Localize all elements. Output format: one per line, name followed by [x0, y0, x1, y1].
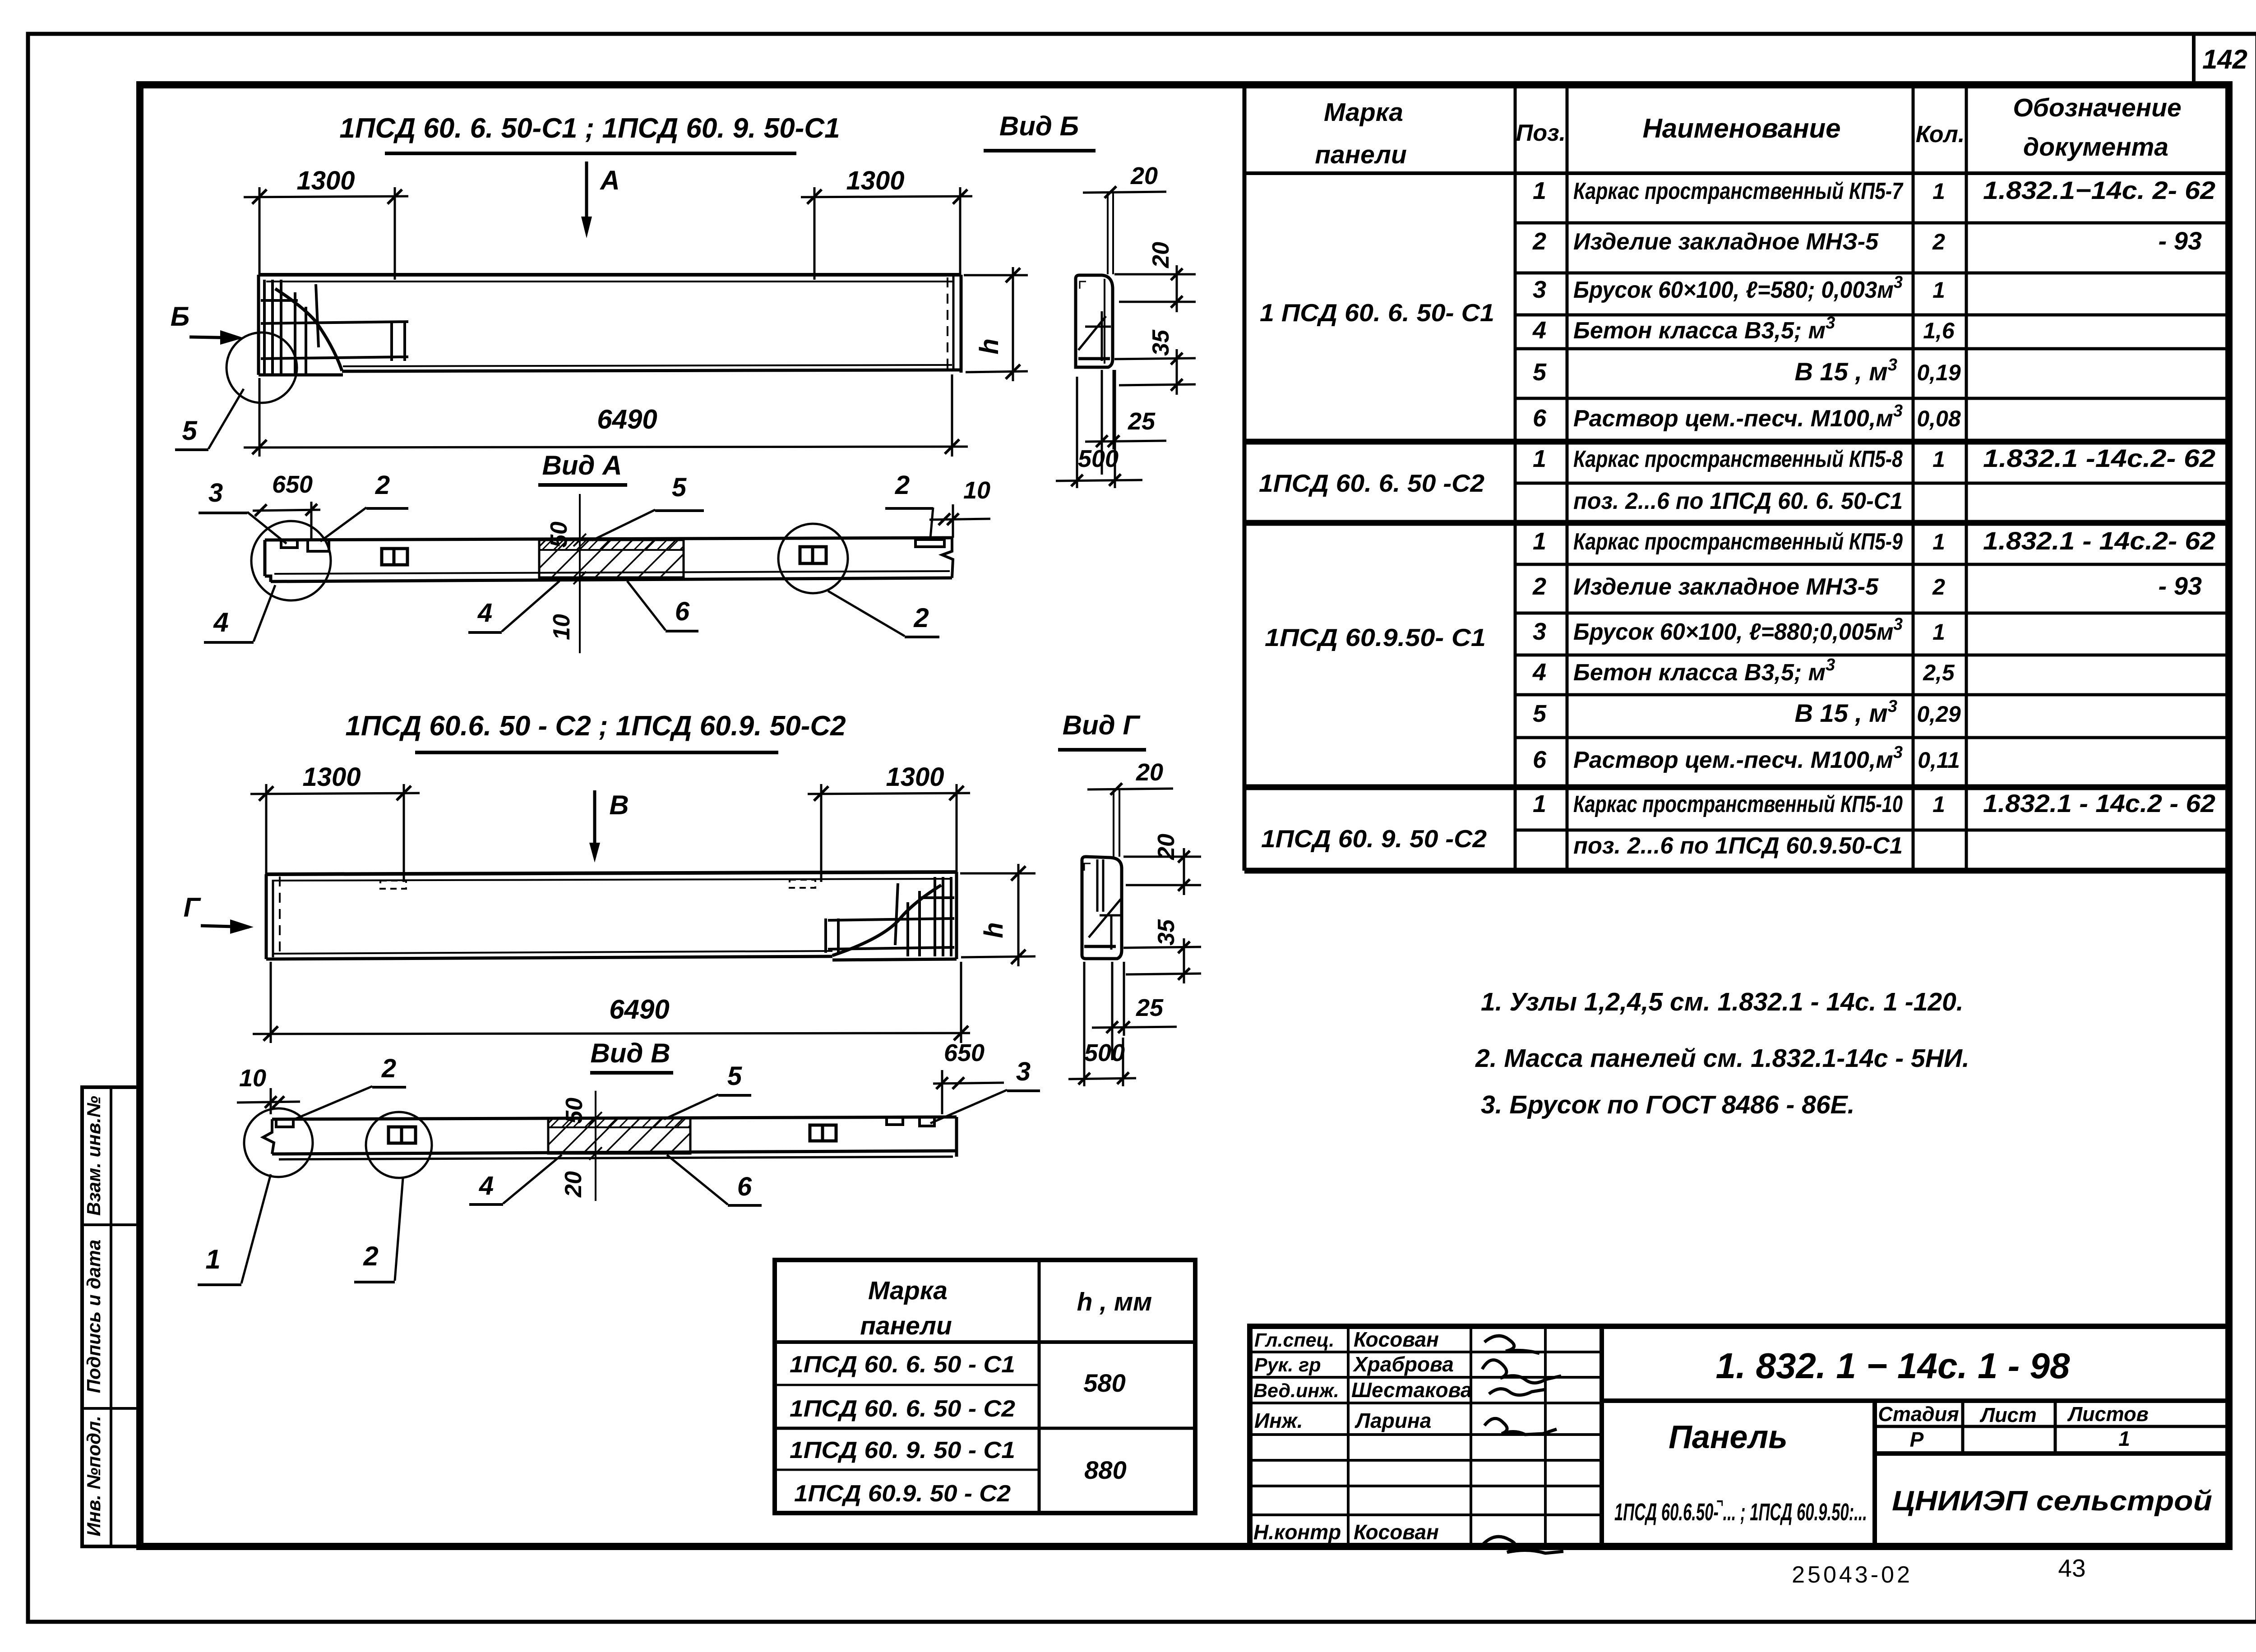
svg-text:0,11: 0,11 [1918, 748, 1960, 773]
svg-text:1300: 1300 [846, 166, 904, 195]
svg-text:поз. 2...6 по 1ПСД 60. 6. 50-С: поз. 2...6 по 1ПСД 60. 6. 50-С1 [1573, 488, 1903, 514]
svg-text:6: 6 [1533, 746, 1547, 773]
svg-text:1,6: 1,6 [1923, 318, 1955, 343]
svg-text:4: 4 [479, 1171, 494, 1200]
svg-text:1: 1 [1932, 619, 1945, 645]
svg-text:1. Узлы 1,2,4,5 см. 1.832.1: 1. Узлы 1,2,4,5 см. 1.832.1 - 14с. 1 -12… [1481, 988, 1964, 1016]
svg-text:Рук. гр: Рук. гр [1254, 1354, 1321, 1376]
svg-text:4: 4 [213, 607, 228, 637]
svg-text:1: 1 [2118, 1427, 2130, 1450]
Vid B section shape [1076, 275, 1113, 367]
svg-text:1. 832. 1 − 14с. 1 - 98: 1. 832. 1 − 14с. 1 - 98 [1715, 1346, 2070, 1386]
svg-text:поз. 2...6 по 1ПСД 60.9.50-С1: поз. 2...6 по 1ПСД 60.9.50-С1 [1573, 833, 1903, 859]
svg-text:3: 3 [1016, 1057, 1031, 1086]
svg-text:4: 4 [477, 598, 492, 628]
svg-text:Обозначение: Обозначение [2013, 93, 2181, 122]
specification table grid [1244, 85, 2229, 871]
svg-text:1: 1 [1533, 528, 1546, 555]
svg-text:документа: документа [2023, 133, 2168, 162]
svg-text:Брусок 60×100, ℓ=880;0,005м3: Брусок 60×100, ℓ=880;0,005м3 [1573, 615, 1903, 645]
svg-text:1ПСД 60. 9. 50 -С2: 1ПСД 60. 9. 50 -С2 [1261, 825, 1487, 853]
svg-text:500: 500 [1078, 445, 1119, 472]
Vid V strip outline [263, 1117, 957, 1159]
svg-text:Шестакова: Шестакова [1351, 1378, 1472, 1402]
panel C1 outline [259, 275, 961, 375]
svg-text:Листов: Листов [2067, 1403, 2149, 1426]
svg-text:650: 650 [272, 471, 313, 498]
svg-text:3: 3 [1533, 276, 1546, 303]
svg-text:2: 2 [363, 1241, 378, 1271]
svg-text:Косован: Косован [1354, 1520, 1439, 1544]
svg-text:2,5: 2,5 [1923, 660, 1955, 685]
svg-text:10: 10 [239, 1065, 266, 1092]
svg-text:5: 5 [1533, 700, 1547, 727]
svg-text:1ПСД 60. 9. 50 - С1: 1ПСД 60. 9. 50 - С1 [790, 1437, 1015, 1463]
svg-text:панели: панели [1315, 140, 1407, 169]
svg-text:Лист: Лист [1979, 1403, 2036, 1426]
panel C1 end reinforcement mesh [261, 280, 408, 374]
svg-text:Инж.: Инж. [1254, 1409, 1303, 1432]
svg-text:43: 43 [2058, 1554, 2085, 1582]
svg-text:1 ПСД 60. 6. 50- С1: 1 ПСД 60. 6. 50- С1 [1260, 299, 1494, 327]
Vid A detail circles [251, 521, 331, 600]
svg-text:3: 3 [1533, 618, 1546, 645]
svg-text:Бетон класса В3,5; м3: Бетон класса В3,5; м3 [1573, 314, 1835, 344]
svg-text:2: 2 [375, 471, 390, 500]
svg-text:3. Брусок по ГОСТ 8486 - 8: 3. Брусок по ГОСТ 8486 - 86Е. [1481, 1090, 1854, 1119]
svg-text:35: 35 [1153, 919, 1179, 946]
svg-text:3: 3 [208, 478, 223, 508]
Vid A notches [281, 540, 297, 548]
svg-text:20: 20 [1148, 242, 1174, 268]
svg-text:1ПСД 60. 6. 50 - С2: 1ПСД 60. 6. 50 - С2 [790, 1396, 1015, 1422]
svg-text:Марка: Марка [868, 1276, 948, 1305]
svg-text:- 93: - 93 [2159, 226, 2202, 255]
svg-text:Каркас пространственный КП5-9: Каркас пространственный КП5-9 [1573, 529, 1903, 555]
svg-text:880: 880 [1084, 1456, 1126, 1484]
svg-text:Подпись и дата: Подпись и дата [83, 1240, 104, 1393]
section arrow В [593, 790, 596, 857]
Vid A hatched wood block zone [539, 540, 684, 577]
svg-text:1.832.1 - 14с.2 - 62: 1.832.1 - 14с.2 - 62 [1983, 789, 2215, 817]
Vid G top rib [1113, 789, 1114, 857]
Vid G dim 20 right [1123, 856, 1201, 858]
svg-text:0,29: 0,29 [1917, 701, 1961, 727]
svg-text:Вид В: Вид В [590, 1038, 670, 1068]
svg-text:Изделие закладное МНЗ-5: Изделие закладное МНЗ-5 [1573, 574, 1879, 600]
svg-text:ЦНИИЭП сельстрой: ЦНИИЭП сельстрой [1892, 1486, 2212, 1517]
panel C2 outline [266, 872, 957, 960]
panel C2 hidden edge (dashed) [279, 877, 281, 956]
svg-text:20: 20 [1130, 162, 1158, 189]
svg-text:5: 5 [182, 415, 198, 446]
svg-text:h , мм: h , мм [1077, 1287, 1152, 1316]
svg-text:Храброва: Храброва [1352, 1352, 1454, 1376]
svg-text:2: 2 [1932, 229, 1945, 254]
svg-text:0,19: 0,19 [1917, 360, 1961, 385]
dimension h (C1 right) [964, 274, 1028, 277]
svg-text:Марка: Марка [1324, 98, 1403, 127]
title block signature columns [1250, 1326, 1602, 1546]
svg-text:1ПСД 60.6.50-̚ ... ; 1ПСД 60.9: 1ПСД 60.6.50-̚ ... ; 1ПСД 60.9.50:... [1614, 1499, 1867, 1526]
panel C1 hidden edge (dashed) [947, 277, 948, 369]
Vid V detail circles [244, 1108, 313, 1177]
signatures (squiggles) [1482, 1336, 1563, 1553]
svg-text:1: 1 [1533, 790, 1546, 817]
Vid B dim 35 right [1114, 358, 1196, 359]
svg-text:2: 2 [1532, 573, 1546, 600]
svg-text:А: А [599, 165, 619, 195]
title block outer [1250, 1326, 2229, 1546]
svg-text:Вид А: Вид А [542, 450, 622, 480]
svg-text:6490: 6490 [597, 404, 657, 434]
svg-text:1: 1 [1932, 792, 1945, 817]
svg-text:580: 580 [1083, 1369, 1125, 1397]
svg-text:1: 1 [1932, 179, 1945, 204]
svg-text:Панель: Панель [1669, 1419, 1788, 1455]
svg-text:Стадия: Стадия [1878, 1403, 1959, 1426]
svg-text:1.832.1 - 14с.2- 62: 1.832.1 - 14с.2- 62 [1983, 526, 2215, 555]
svg-text:1ПСД 60.9.50- С1: 1ПСД 60.9.50- С1 [1265, 623, 1486, 651]
svg-text:1ПСД 60.9. 50 - С2: 1ПСД 60.9. 50 - С2 [794, 1481, 1011, 1507]
svg-text:6: 6 [675, 597, 690, 626]
svg-text:Б: Б [171, 301, 190, 332]
svg-text:1ПСД 60. 6. 50 - С1: 1ПСД 60. 6. 50 - С1 [790, 1352, 1015, 1378]
svg-text:В: В [609, 790, 629, 820]
svg-text:Ларина: Ларина [1355, 1409, 1431, 1432]
svg-text:Раствор цем.-песч. М100,м3: Раствор цем.-песч. М100,м3 [1573, 401, 1903, 432]
svg-text:1ПСД 60. 6. 50-С1 ; 1ПСД 60: 1ПСД 60. 6. 50-С1 ; 1ПСД 60. 9. 50-С1 [339, 113, 840, 144]
svg-text:1: 1 [1932, 447, 1945, 472]
svg-text:1.832.1−14с. 2- 62: 1.832.1−14с. 2- 62 [1983, 176, 2215, 204]
svg-text:25043-02: 25043-02 [1792, 1562, 1913, 1588]
Vid G section interior [1084, 859, 1122, 950]
title block right part [1602, 1398, 2229, 1403]
svg-text:1: 1 [1533, 445, 1546, 472]
svg-text:Каркас пространственный КП5-10: Каркас пространственный КП5-10 [1573, 791, 1903, 817]
svg-text:0,08: 0,08 [1917, 406, 1961, 431]
svg-text:35: 35 [1148, 329, 1174, 356]
svg-text:Гл.спец.: Гл.спец. [1254, 1329, 1334, 1351]
svg-text:1300: 1300 [886, 762, 944, 792]
svg-text:4: 4 [1532, 317, 1546, 344]
Vid B section interior [1078, 281, 1111, 361]
Vid B dim 20 right [1114, 273, 1196, 276]
svg-text:1ПСД 60.6. 50 - С2 ; 1ПСД 60: 1ПСД 60.6. 50 - С2 ; 1ПСД 60.9. 50-С2 [345, 711, 846, 742]
svg-text:25: 25 [1136, 994, 1164, 1021]
svg-text:142: 142 [2202, 44, 2247, 74]
svg-text:Вед.инж.: Вед.инж. [1253, 1380, 1339, 1402]
svg-text:2: 2 [1932, 574, 1945, 600]
svg-text:50: 50 [561, 1098, 587, 1124]
svg-text:2: 2 [1532, 228, 1546, 255]
svg-text:Н.контр: Н.контр [1253, 1520, 1341, 1544]
svg-text:6490: 6490 [609, 994, 669, 1024]
svg-text:20: 20 [1153, 834, 1179, 860]
svg-text:Взам. инв.№: Взам. инв.№ [83, 1096, 104, 1216]
panel C2 hidden plate marks [380, 881, 406, 889]
svg-text:Косован: Косован [1354, 1328, 1439, 1351]
dimension h (C2 right) [960, 872, 1036, 875]
Vid V notches [276, 1119, 293, 1127]
svg-text:4: 4 [1532, 659, 1546, 686]
svg-text:Раствор цем.-песч. М100,м3: Раствор цем.-песч. М100,м3 [1573, 743, 1903, 773]
svg-text:Г: Г [184, 892, 202, 923]
Vid A strip outline [265, 538, 953, 582]
svg-text:Каркас пространственный КП5-8: Каркас пространственный КП5-8 [1573, 446, 1903, 472]
Vid A embedded plates MH3-5 [382, 549, 407, 565]
svg-text:Бетон класса В3,5; м3: Бетон класса В3,5; м3 [1573, 655, 1835, 686]
svg-text:Поз.: Поз. [1516, 120, 1566, 146]
svg-text:Вид Б: Вид Б [999, 111, 1079, 141]
svg-text:1.832.1 -14с.2- 62: 1.832.1 -14с.2- 62 [1983, 444, 2215, 472]
Vid B top rib [1107, 193, 1109, 274]
svg-text:1300: 1300 [302, 762, 361, 792]
h table grid [775, 1260, 1195, 1513]
Vid V centerline [595, 1091, 596, 1201]
svg-text:2. Масса панелей см. 1.832: 2. Масса панелей см. 1.832.1-14с - 5НИ. [1475, 1044, 1969, 1073]
svg-text:1: 1 [1932, 277, 1945, 303]
Vid V hatched wood block zone [548, 1118, 690, 1154]
svg-text:20: 20 [1136, 759, 1163, 786]
Vid G section shape [1082, 857, 1122, 959]
svg-text:панели: панели [860, 1311, 952, 1340]
svg-text:1ПСД 60. 6. 50 -С2: 1ПСД 60. 6. 50 -С2 [1259, 469, 1484, 497]
svg-text:10: 10 [549, 614, 575, 640]
svg-text:6: 6 [1533, 405, 1547, 432]
svg-text:20: 20 [560, 1171, 587, 1198]
page number box 142 [2192, 36, 2196, 85]
svg-text:500: 500 [1084, 1039, 1125, 1066]
svg-text:2: 2 [895, 471, 910, 500]
svg-text:1: 1 [1533, 177, 1546, 204]
detail circle 5 [227, 332, 297, 403]
Vid V embedded plates [388, 1127, 416, 1143]
Vid G dim 35 right [1123, 947, 1201, 948]
svg-text:1: 1 [1932, 529, 1945, 554]
svg-text:Р: Р [1910, 1428, 1924, 1451]
svg-text:Брусок 60×100, ℓ=580; 0,003м3: Брусок 60×100, ℓ=580; 0,003м3 [1573, 273, 1903, 303]
svg-text:6: 6 [737, 1172, 752, 1201]
svg-text:1300: 1300 [296, 166, 355, 195]
svg-text:25: 25 [1128, 408, 1156, 435]
svg-text:В 15 , м3: В 15 , м3 [1794, 697, 1897, 727]
svg-text:Каркас пространственный КП5-7: Каркас пространственный КП5-7 [1573, 178, 1904, 204]
svg-text:5: 5 [727, 1061, 742, 1091]
svg-text:Кол.: Кол. [1916, 121, 1965, 148]
svg-text:650: 650 [944, 1039, 985, 1066]
Vid A centerline [579, 494, 581, 653]
svg-text:Вид Г: Вид Г [1063, 710, 1141, 740]
section arrow A [585, 162, 588, 232]
svg-text:50: 50 [546, 521, 572, 548]
svg-text:5: 5 [672, 473, 687, 502]
svg-text:5: 5 [1533, 359, 1547, 386]
svg-text:Наименование: Наименование [1642, 113, 1840, 143]
svg-text:- 93: - 93 [2159, 572, 2202, 600]
svg-text:Инв. №подл.: Инв. №подл. [83, 1416, 104, 1536]
svg-text:В 15 , м3: В 15 , м3 [1794, 355, 1897, 386]
svg-text:Изделие закладное МНЗ-5: Изделие закладное МНЗ-5 [1573, 229, 1879, 255]
svg-text:2: 2 [381, 1054, 396, 1083]
panel C2 end reinforcement mesh [826, 877, 954, 956]
svg-text:1: 1 [205, 1244, 220, 1274]
svg-text:h: h [979, 922, 1008, 938]
left stamp strip table [82, 1087, 140, 1546]
svg-text:h: h [975, 338, 1004, 354]
svg-text:10: 10 [963, 477, 990, 504]
svg-text:2: 2 [913, 603, 929, 633]
